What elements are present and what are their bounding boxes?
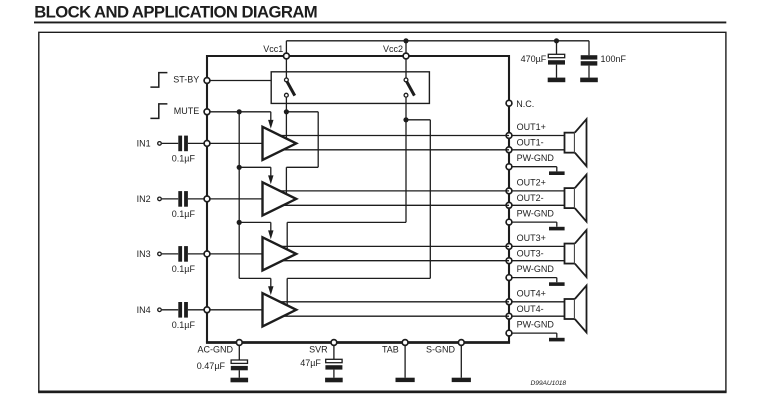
svg-text:IN2: IN2 xyxy=(137,194,151,204)
svg-text:PW-GND: PW-GND xyxy=(517,319,555,329)
svg-text:BLOCK AND APPLICATION DIAGRAM: BLOCK AND APPLICATION DIAGRAM xyxy=(34,2,317,21)
svg-text:100nF: 100nF xyxy=(601,54,627,64)
svg-text:IN4: IN4 xyxy=(137,305,151,315)
svg-text:OUT1-: OUT1- xyxy=(517,138,544,148)
svg-text:N.C.: N.C. xyxy=(516,99,534,109)
svg-text:PW-GND: PW-GND xyxy=(517,208,555,218)
svg-text:OUT3-: OUT3- xyxy=(517,248,544,258)
svg-text:OUT4-: OUT4- xyxy=(517,304,544,314)
svg-text:D99AU1018: D99AU1018 xyxy=(531,380,567,387)
svg-text:OUT3+: OUT3+ xyxy=(517,233,546,243)
svg-text:47µF: 47µF xyxy=(300,358,321,368)
svg-text:MUTE: MUTE xyxy=(174,106,200,116)
svg-text:OUT2-: OUT2- xyxy=(517,193,544,203)
svg-text:PW-GND: PW-GND xyxy=(517,264,555,274)
svg-text:0.1µF: 0.1µF xyxy=(172,209,196,219)
svg-text:0.47µF: 0.47µF xyxy=(197,361,226,371)
svg-text:IN1: IN1 xyxy=(137,139,151,149)
svg-text:OUT4+: OUT4+ xyxy=(517,289,546,299)
svg-text:ST-BY: ST-BY xyxy=(173,75,199,85)
svg-text:Vcc1: Vcc1 xyxy=(263,44,283,54)
svg-text:AC-GND: AC-GND xyxy=(198,345,234,355)
svg-text:0.1µF: 0.1µF xyxy=(172,153,196,163)
svg-text:OUT2+: OUT2+ xyxy=(517,178,546,188)
svg-text:OUT1+: OUT1+ xyxy=(517,122,546,132)
svg-text:Vcc2: Vcc2 xyxy=(383,44,403,54)
svg-text:SVR: SVR xyxy=(309,345,328,355)
svg-text:PW-GND: PW-GND xyxy=(517,153,555,163)
svg-text:0.1µF: 0.1µF xyxy=(172,320,196,330)
svg-text:S-GND: S-GND xyxy=(426,345,456,355)
svg-text:IN3: IN3 xyxy=(137,249,151,259)
svg-text:TAB: TAB xyxy=(382,345,399,355)
svg-text:0.1µF: 0.1µF xyxy=(172,264,196,274)
svg-text:470µF: 470µF xyxy=(521,54,547,64)
